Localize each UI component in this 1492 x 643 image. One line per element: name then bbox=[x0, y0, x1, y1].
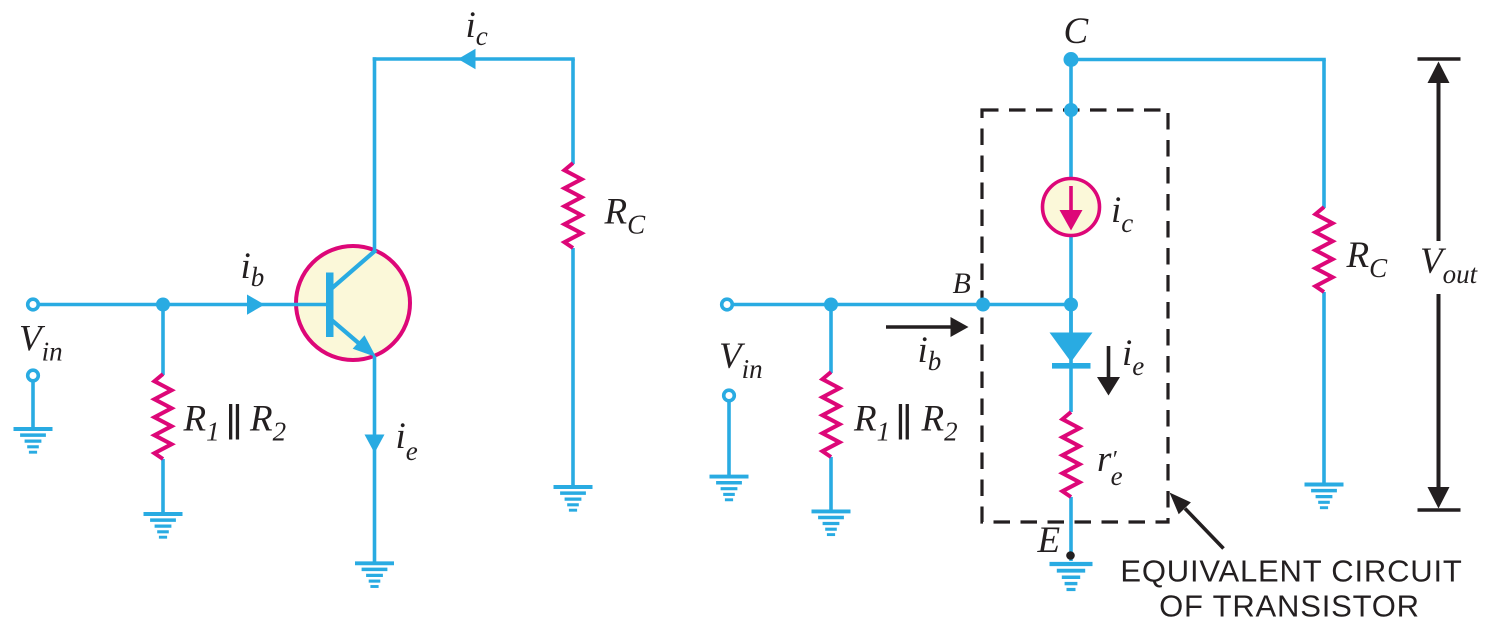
svg-text:C: C bbox=[1064, 11, 1090, 52]
svg-text:EQUIVALENT CIRCUIT: EQUIVALENT CIRCUIT bbox=[1120, 554, 1462, 589]
svg-text:OF TRANSISTOR: OF TRANSISTOR bbox=[1159, 589, 1420, 624]
svg-text:E: E bbox=[1037, 520, 1061, 561]
svg-text:B: B bbox=[953, 267, 971, 300]
